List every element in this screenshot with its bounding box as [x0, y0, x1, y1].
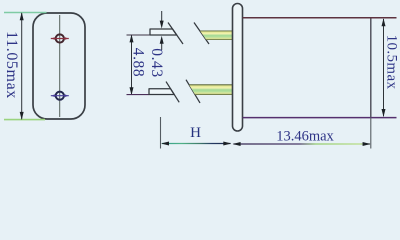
break line 1 (top lead) [168, 23, 183, 45]
label 0.43 [148, 48, 165, 78]
top view body outline (pill) [33, 13, 85, 119]
dimension 0.43 arrows [160, 11, 164, 50]
label H [190, 125, 201, 141]
flange (side view base) [233, 4, 243, 132]
vertical centerline of top view [59, 15, 61, 117]
svg-text:10.5max: 10.5max [384, 35, 400, 90]
svg-text:13.46max: 13.46max [276, 129, 334, 145]
dimension line 13.46max [233, 142, 371, 146]
extension line top (green) for 11.05max [4, 12, 47, 14]
label 11.05max [3, 31, 20, 99]
break line 1 (bottom lead) [166, 82, 179, 103]
extension line bottom (green) for 11.05max [4, 119, 45, 121]
break line 2 (top lead) [194, 23, 209, 45]
dimension line 11.05max [20, 12, 24, 120]
label 10.5max [384, 35, 400, 90]
can right edge [370, 19, 372, 118]
break line 2 (bottom lead) [186, 80, 200, 103]
top lead hole [51, 34, 69, 42]
can top edge + extension [243, 17, 397, 19]
extension line for 4.88 bottom [127, 94, 150, 96]
extension line for 4.88 top [127, 34, 151, 36]
dimension 4.88 line with arrows [130, 34, 134, 95]
label 4.88 [130, 48, 147, 78]
label 13.46max [276, 129, 334, 145]
bottom lead stub (cross-section bar) [149, 89, 174, 95]
svg-text:11.05max: 11.05max [3, 31, 20, 99]
top lead (colored) [200, 31, 233, 41]
H extension line (vertical) [160, 117, 162, 149]
can bottom edge + extension [243, 117, 397, 119]
can right edge extension down [370, 118, 372, 149]
dimension line 10.5max [382, 18, 386, 117]
svg-text:0.43: 0.43 [148, 48, 165, 78]
dimension line H [161, 142, 231, 146]
bottom lead hole [51, 92, 69, 100]
top lead stub (cross-section bar) [150, 29, 177, 35]
svg-text:H: H [190, 125, 201, 141]
svg-text:4.88: 4.88 [130, 48, 147, 78]
bottom lead (colored) [189, 84, 233, 95]
